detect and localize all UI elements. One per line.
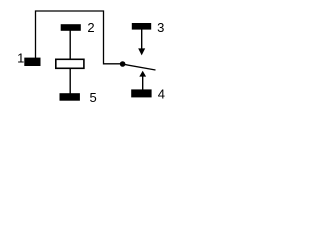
svg-text:1: 1 bbox=[17, 51, 24, 66]
svg-text:5: 5 bbox=[89, 90, 96, 105]
svg-text:4: 4 bbox=[158, 86, 165, 101]
svg-text:2: 2 bbox=[87, 20, 94, 35]
svg-text:3: 3 bbox=[157, 20, 164, 35]
